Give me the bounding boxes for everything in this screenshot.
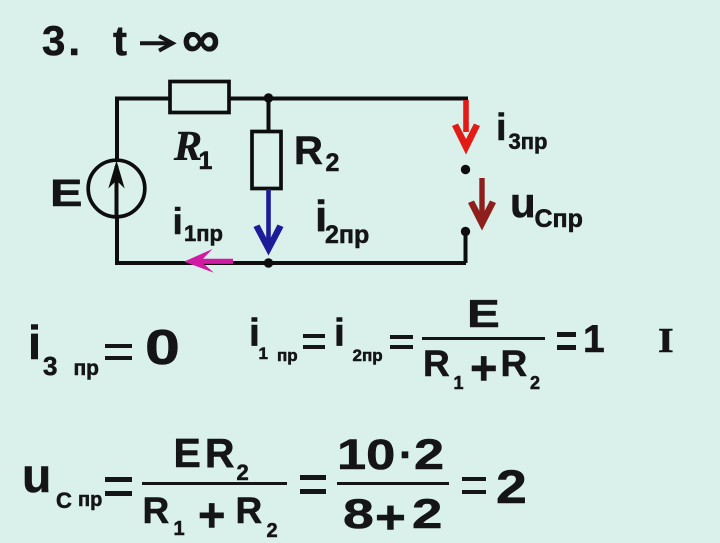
resistor R2 [252, 132, 281, 189]
node: capacitor bottom terminal dot [461, 227, 470, 236]
formula i3пр = 0 [28, 319, 41, 366]
node: top junction dot [264, 93, 273, 102]
title "3." [42, 20, 83, 62]
title arrow [136, 31, 186, 55]
text cursor [658, 323, 674, 358]
formula i1пр = i2пр = E/(R1+R2) = 1 [249, 314, 260, 353]
label R1 [174, 126, 202, 168]
current arrow i2пр (blue) [266, 189, 271, 249]
wire: top right corner stub [464, 97, 468, 106]
label i3пр [496, 109, 507, 147]
label i1пр [173, 203, 183, 240]
wire: top middle from R1 to right corner [229, 97, 466, 101]
voltage source E circle [88, 160, 145, 217]
voltage arrow uCпр (dark red) [479, 178, 484, 222]
resistor R1 [170, 82, 229, 113]
node: bottom junction dot [264, 258, 273, 267]
current arrow i1пр (magenta) [196, 259, 233, 264]
label i2пр [315, 195, 327, 239]
voltage source E arrow [115, 166, 119, 217]
wire: right branch vertical bottom [464, 232, 468, 264]
wire: left branch vertical bottom [115, 217, 119, 263]
label uCпр [510, 182, 536, 224]
label R2 [294, 131, 323, 171]
formula uCпр = ER2/(R1+R2) = 10·2/(8+2) = 2 [22, 453, 51, 501]
title "t" [113, 20, 127, 62]
current arrow i3пр (red) [463, 100, 469, 132]
title infinity [182, 13, 220, 66]
wire: junction down to R2 [267, 99, 271, 133]
node: capacitor top terminal dot [461, 165, 470, 174]
wire: bottom return wire [115, 261, 466, 265]
wire: left branch vertical top [117, 99, 170, 161]
label E [50, 175, 82, 213]
